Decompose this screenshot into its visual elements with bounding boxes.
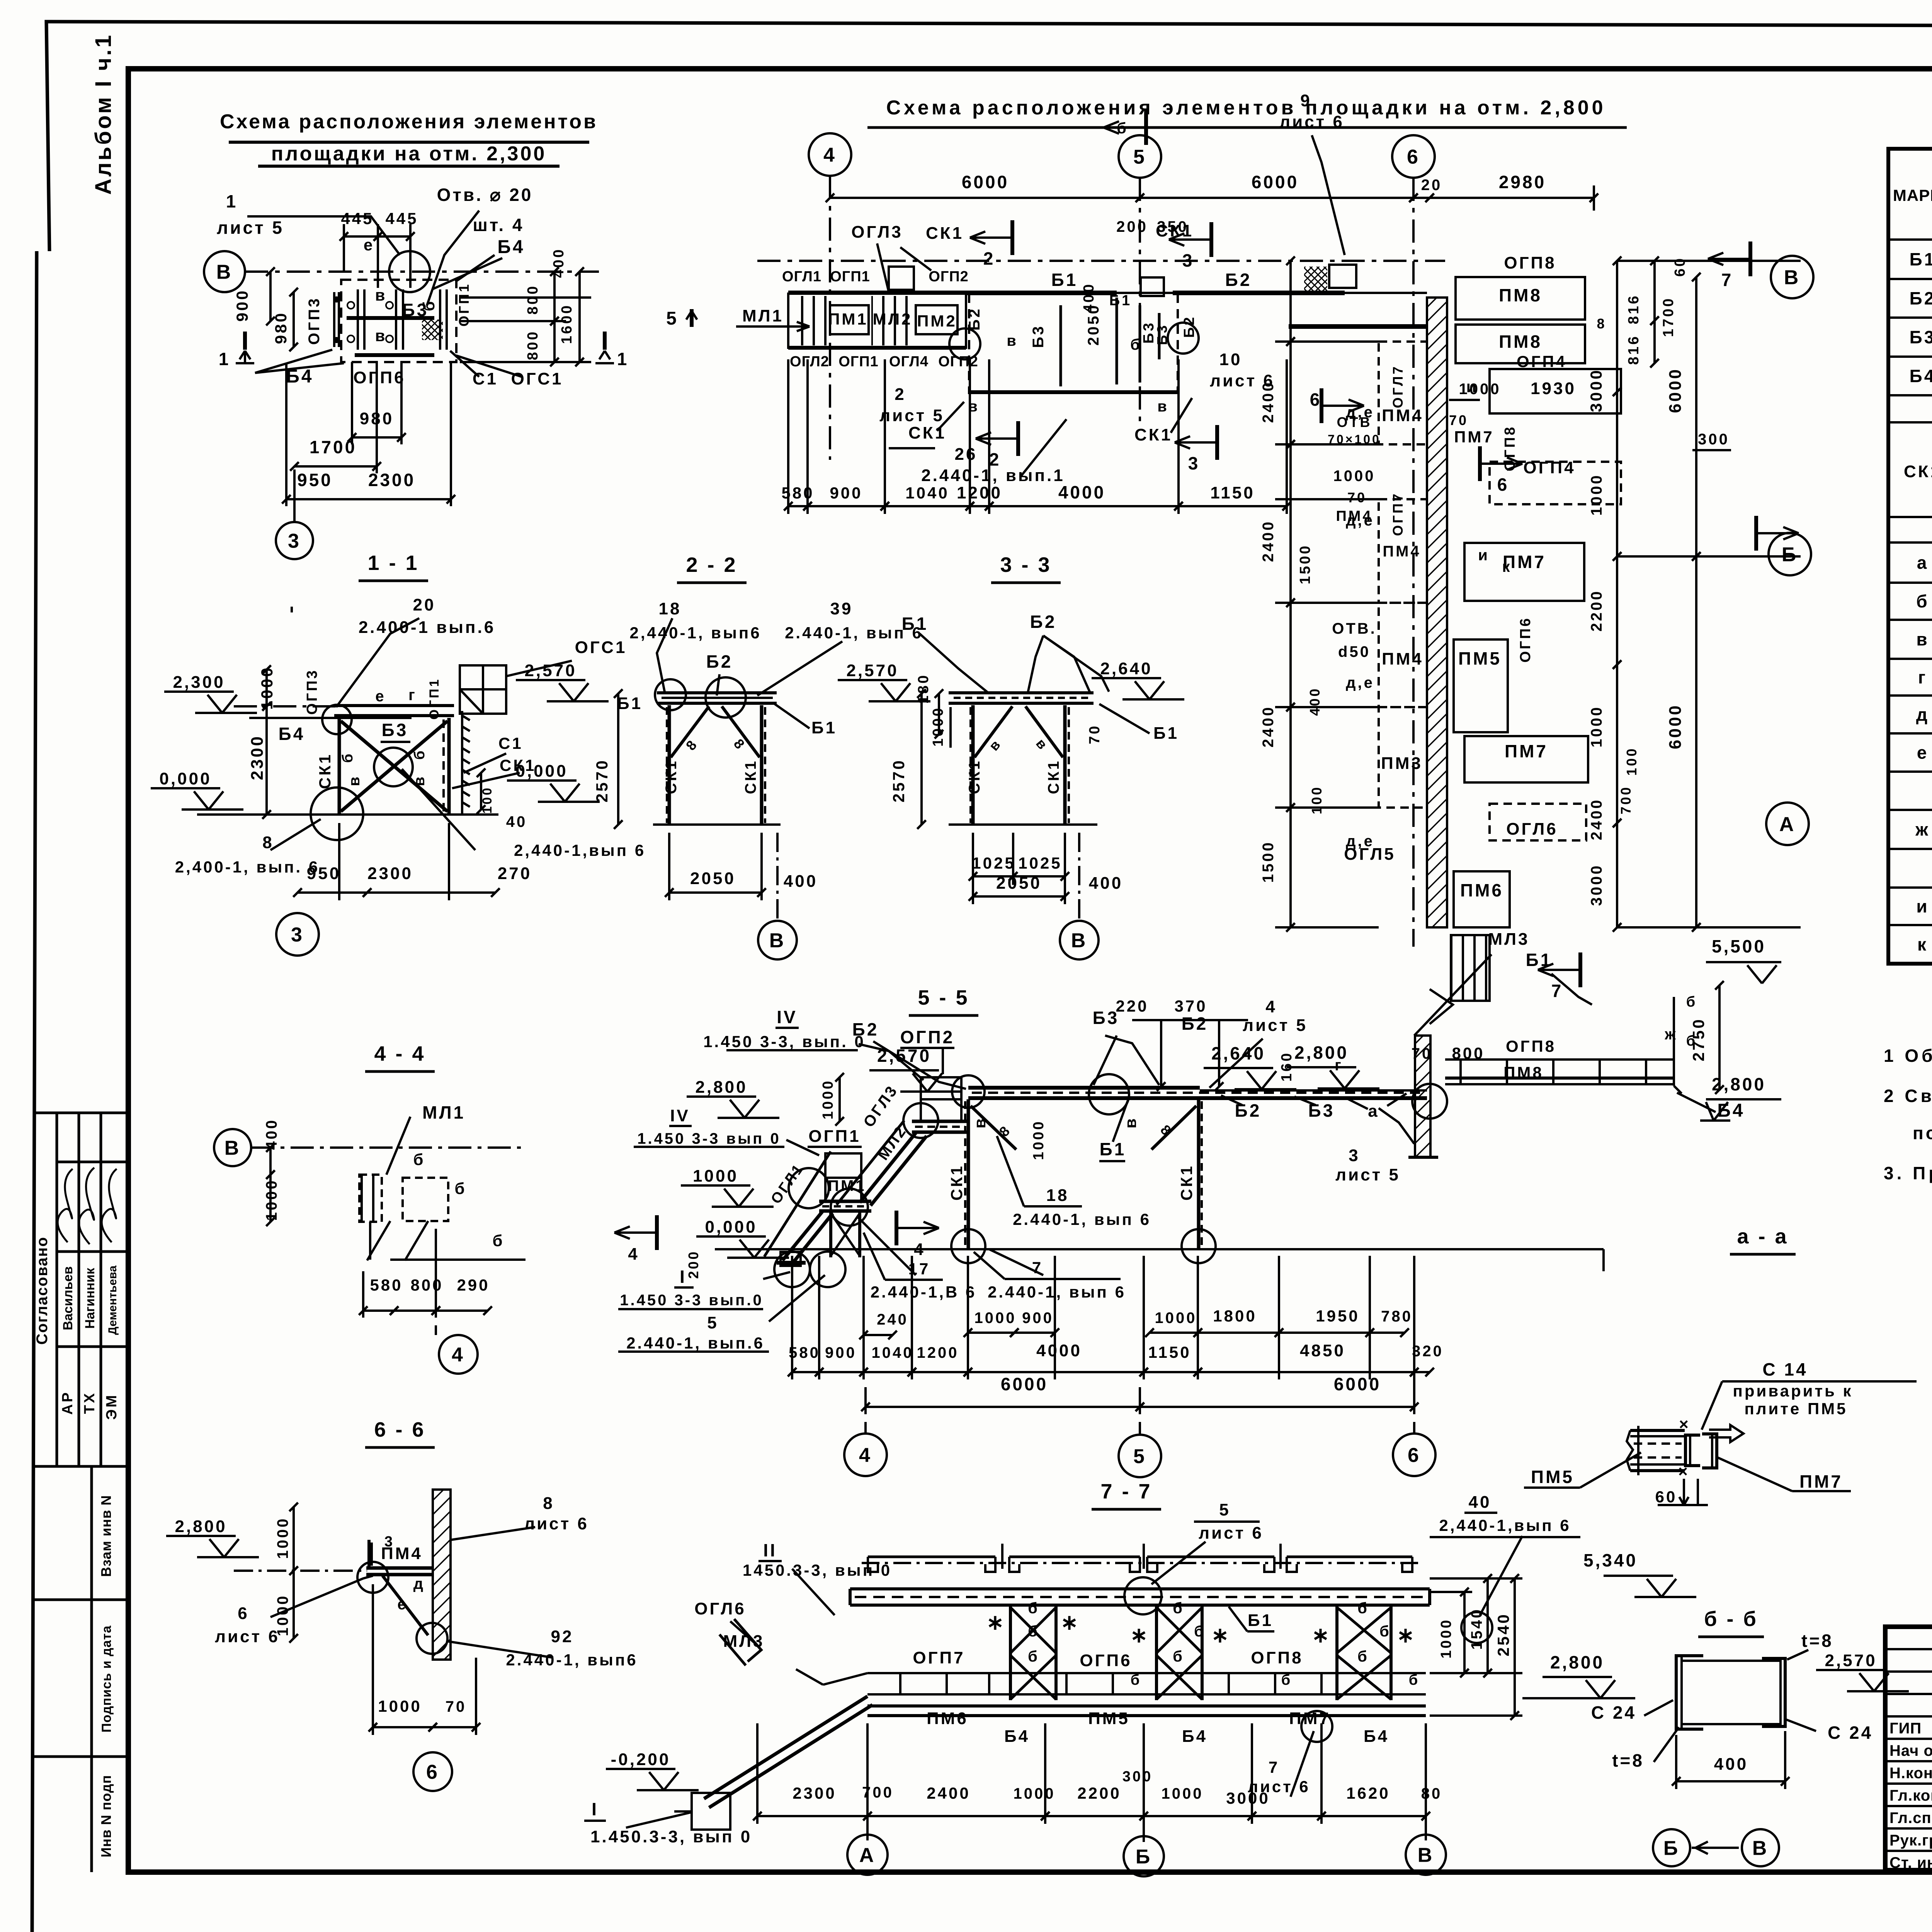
svg-text:Б: Б [1136, 1846, 1152, 1868]
svg-text:Б4: Б4 [1910, 366, 1932, 386]
svg-text:ПМ2: ПМ2 [917, 312, 957, 330]
svg-text:Б3: Б3 [1154, 323, 1170, 345]
svg-text:б: б [1028, 1648, 1039, 1665]
svg-text:а - а: а - а [1737, 1225, 1788, 1248]
svg-text:6: 6 [1497, 474, 1509, 495]
svg-text:400: 400 [551, 248, 567, 278]
svg-text:7: 7 [1032, 1259, 1043, 1277]
svg-text:б: б [1409, 1672, 1420, 1688]
svg-text:70: 70 [446, 1698, 467, 1715]
svg-text:1000: 1000 [274, 1517, 291, 1559]
svg-text:ОГЛ2: ОГЛ2 [790, 354, 829, 370]
svg-text:ПМ4: ПМ4 [1382, 406, 1423, 425]
svg-text:6000: 6000 [1334, 1374, 1381, 1394]
svg-text:ОГП8: ОГП8 [1251, 1648, 1303, 1667]
svg-text:7 - 7: 7 - 7 [1100, 1480, 1152, 1503]
svg-text:ПМ4: ПМ4 [1382, 650, 1423, 668]
svg-text:60: 60 [1672, 257, 1688, 277]
svg-text:ОГП3: ОГП3 [304, 668, 320, 715]
svg-text:ОГЛ4: ОГЛ4 [889, 354, 929, 370]
svg-text:2 - 2: 2 - 2 [686, 553, 737, 577]
svg-text:1 - 1: 1 - 1 [367, 551, 419, 575]
svg-text:∗: ∗ [1211, 1624, 1231, 1647]
svg-text:6000: 6000 [1252, 172, 1299, 192]
svg-text:-0,200: -0,200 [611, 1750, 671, 1769]
svg-text:Б2: Б2 [1030, 612, 1057, 632]
svg-text:б: б [1173, 1600, 1184, 1617]
svg-text:Б4: Б4 [1182, 1727, 1207, 1746]
svg-text:2400: 2400 [927, 1784, 970, 1802]
svg-text:2300: 2300 [793, 1784, 836, 1802]
svg-text:800: 800 [410, 1276, 443, 1294]
svg-text:В: В [216, 261, 233, 284]
svg-text:1000: 1000 [378, 1697, 422, 1715]
svg-text:2400: 2400 [1260, 520, 1277, 562]
svg-text:6: 6 [1408, 1444, 1421, 1467]
svg-text:ОГП8: ОГП8 [1504, 253, 1556, 272]
svg-text:б: б [1131, 1672, 1141, 1688]
svg-text:816: 816 [1626, 294, 1642, 324]
svg-text:2,570: 2,570 [524, 661, 577, 680]
svg-text:д: д [1916, 704, 1929, 724]
svg-text:МЛ1: МЛ1 [742, 306, 784, 325]
svg-text:ОГП4: ОГП4 [1523, 458, 1575, 477]
svg-text:300: 300 [1122, 1769, 1153, 1785]
svg-text:1620: 1620 [1346, 1784, 1390, 1802]
svg-text:270: 270 [498, 864, 532, 883]
svg-text:1000: 1000 [1162, 1785, 1204, 1802]
svg-text:б: б [1028, 1600, 1039, 1617]
svg-text:ОГП6: ОГП6 [1517, 616, 1534, 663]
svg-text:2570: 2570 [593, 759, 611, 802]
svg-text:20: 20 [413, 595, 436, 614]
svg-text:580: 580 [370, 1276, 403, 1294]
svg-text:ОГП7: ОГП7 [1390, 492, 1406, 536]
svg-text:е: е [364, 236, 374, 254]
svg-text:лист 6: лист 6 [1279, 112, 1344, 131]
svg-text:4: 4 [914, 1240, 925, 1259]
svg-text:∗: ∗ [1312, 1624, 1331, 1647]
svg-text:В: В [224, 1137, 241, 1160]
svg-text:ОГП2: ОГП2 [929, 269, 969, 285]
svg-text:Дементьева: Дементьева [106, 1265, 119, 1335]
svg-text:2: 2 [895, 385, 906, 404]
svg-text:Б1: Б1 [1051, 270, 1078, 290]
svg-text:ПМ8: ПМ8 [1503, 1063, 1544, 1082]
svg-text:ПМ5: ПМ5 [1531, 1467, 1574, 1487]
svg-text:4: 4 [452, 1344, 465, 1366]
svg-text:1000: 1000 [1588, 474, 1605, 516]
svg-text:445: 445 [385, 209, 418, 228]
svg-text:Б2: Б2 [1181, 315, 1197, 338]
svg-text:2 Сварку производить электрод: 2 Сварку производить электродами типа Э4… [1884, 1086, 1932, 1106]
svg-text:1.450.3-3, вып 0: 1.450.3-3, вып 0 [590, 1827, 752, 1846]
svg-text:ОГС1: ОГС1 [511, 369, 563, 388]
svg-text:ОГП1: ОГП1 [427, 677, 442, 719]
svg-text:1950: 1950 [1316, 1307, 1359, 1325]
svg-text:900: 900 [1022, 1310, 1054, 1327]
svg-text:0,000: 0,000 [515, 762, 568, 781]
svg-text:580: 580 [789, 1344, 820, 1361]
svg-text:950: 950 [307, 864, 341, 883]
svg-text:ОТВ.: ОТВ. [1332, 620, 1377, 637]
svg-text:лист 6: лист 6 [215, 1627, 280, 1646]
svg-text:40: 40 [506, 813, 527, 830]
svg-text:3000: 3000 [1587, 368, 1605, 412]
svg-text:ОГЛ1: ОГЛ1 [782, 269, 821, 285]
svg-text:1000: 1000 [263, 1179, 280, 1221]
svg-text:Б1: Б1 [1526, 950, 1553, 970]
svg-text:2,570: 2,570 [1825, 1651, 1877, 1670]
svg-text:Согласовано: Согласовано [34, 1236, 51, 1345]
svg-text:2,640: 2,640 [1100, 659, 1152, 678]
svg-text:Схема расположения элементов п: Схема расположения элементов площадки на… [886, 97, 1606, 119]
svg-text:II: II [763, 1540, 777, 1560]
svg-text:ПМ5: ПМ5 [1088, 1709, 1130, 1728]
svg-text:2: 2 [989, 449, 1001, 469]
svg-text:1700: 1700 [310, 437, 357, 457]
svg-text:Б1: Б1 [902, 614, 929, 634]
svg-text:6: 6 [1407, 146, 1420, 168]
svg-text:370: 370 [1174, 997, 1207, 1015]
svg-text:5: 5 [1219, 1500, 1230, 1519]
svg-text:1000: 1000 [1333, 468, 1376, 485]
svg-text:б: б [340, 752, 356, 763]
svg-text:6000: 6000 [1666, 367, 1685, 413]
svg-text:СК1: СК1 [742, 759, 759, 794]
svg-text:б - б: б - б [1704, 1607, 1758, 1631]
svg-text:240: 240 [877, 1311, 908, 1328]
svg-text:1800: 1800 [1213, 1307, 1257, 1325]
svg-text:С 24: С 24 [1828, 1723, 1873, 1743]
svg-text:Б1: Б1 [1910, 249, 1932, 269]
svg-text:2,640: 2,640 [1211, 1043, 1265, 1063]
svg-text:26: 26 [955, 445, 978, 464]
svg-text:1200: 1200 [957, 483, 1002, 502]
svg-text:1000: 1000 [1014, 1785, 1056, 1802]
svg-text:е: е [397, 1596, 408, 1613]
svg-text:а: а [1368, 1102, 1379, 1121]
svg-text:6000: 6000 [962, 172, 1009, 192]
svg-text:18: 18 [1046, 1186, 1069, 1205]
svg-text:200: 200 [685, 1250, 701, 1279]
svg-text:∗: ∗ [1397, 1624, 1416, 1647]
svg-text:Б4: Б4 [279, 724, 305, 744]
svg-text:МЛ3: МЛ3 [1488, 930, 1530, 949]
svg-text:б: б [412, 749, 428, 760]
svg-text:ПМ7: ПМ7 [1505, 741, 1548, 761]
svg-text:8: 8 [262, 833, 274, 852]
svg-text:ж: ж [1664, 1026, 1677, 1043]
svg-text:39: 39 [830, 599, 853, 618]
svg-text:в: в [1157, 398, 1169, 415]
svg-text:4000: 4000 [1058, 482, 1105, 502]
svg-text:40: 40 [1469, 1493, 1492, 1512]
svg-text:5 - 5: 5 - 5 [918, 986, 969, 1009]
svg-text:Б2: Б2 [1182, 1014, 1208, 1034]
svg-text:приварить к: приварить к [1733, 1382, 1853, 1400]
svg-text:2300: 2300 [368, 470, 415, 490]
svg-text:ОГП1: ОГП1 [456, 282, 472, 327]
svg-text:I: I [680, 1267, 687, 1287]
svg-text:и: и [1478, 547, 1490, 564]
svg-text:б: б [1379, 1623, 1391, 1640]
svg-text:2200: 2200 [1077, 1784, 1121, 1802]
svg-text:1000: 1000 [1438, 1618, 1454, 1659]
svg-text:АР: АР [60, 1391, 76, 1415]
svg-text:2,800: 2,800 [695, 1078, 747, 1097]
svg-text:С 14: С 14 [1762, 1359, 1808, 1379]
svg-text:СК1: СК1 [1177, 1164, 1196, 1201]
svg-text:2050: 2050 [996, 874, 1042, 893]
svg-text:ОГП2: ОГП2 [938, 354, 978, 370]
svg-text:4000: 4000 [1036, 1341, 1082, 1360]
svg-text:Б3: Б3 [1910, 327, 1932, 347]
svg-text:3: 3 [291, 924, 304, 946]
svg-text:400: 400 [263, 1118, 280, 1150]
svg-text:2400: 2400 [1260, 381, 1277, 423]
svg-text:Альбом I ч.1: Альбом I ч.1 [91, 33, 116, 195]
svg-text:1540: 1540 [1468, 1608, 1485, 1650]
svg-text:5: 5 [666, 308, 679, 329]
svg-text:2050: 2050 [1085, 304, 1102, 346]
svg-text:4: 4 [859, 1444, 872, 1467]
svg-text:0,000: 0,000 [159, 769, 211, 788]
svg-text:3: 3 [384, 1534, 395, 1550]
svg-text:3000: 3000 [1588, 864, 1605, 906]
svg-text:3: 3 [288, 530, 301, 553]
svg-text:∗: ∗ [986, 1611, 1006, 1634]
svg-text:2: 2 [983, 248, 995, 269]
svg-text:б: б [1117, 120, 1128, 137]
svg-text:МЛ1: МЛ1 [422, 1102, 465, 1122]
svg-text:СК1: СК1 [1134, 425, 1172, 444]
svg-text:1000: 1000 [1459, 381, 1501, 398]
svg-text:18: 18 [659, 599, 682, 618]
svg-text:300: 300 [1698, 431, 1730, 448]
svg-text:20: 20 [1421, 177, 1442, 194]
svg-text:2,440-1,вып 6: 2,440-1,вып 6 [1439, 1516, 1571, 1534]
svg-text:d50: d50 [1338, 643, 1371, 660]
svg-text:2200: 2200 [1588, 590, 1605, 632]
svg-text:1150: 1150 [1210, 483, 1255, 502]
svg-text:∗: ∗ [1130, 1624, 1150, 1647]
svg-text:в: в [375, 286, 387, 304]
svg-text:1: 1 [219, 349, 231, 369]
svg-text:МАРКА: МАРКА [1893, 186, 1932, 204]
svg-text:900: 900 [830, 484, 862, 502]
svg-text:Н.контр.: Н.контр. [1889, 1765, 1932, 1782]
svg-text:2400: 2400 [1260, 706, 1277, 748]
svg-text:и: и [1916, 896, 1929, 917]
svg-text:Б1: Б1 [1153, 724, 1179, 743]
svg-text:е: е [375, 688, 386, 705]
svg-text:Рук.гр: Рук.гр [1889, 1832, 1932, 1849]
svg-text:1000: 1000 [1155, 1310, 1197, 1327]
svg-text:Б1: Б1 [811, 718, 837, 737]
svg-text:В: В [1071, 930, 1088, 952]
svg-text:ОГС1: ОГС1 [575, 638, 627, 657]
svg-text:1500: 1500 [1297, 544, 1313, 585]
svg-text:10: 10 [1219, 350, 1242, 369]
svg-text:320: 320 [1412, 1343, 1444, 1360]
svg-text:в: в [971, 1117, 989, 1129]
svg-text:2.440-1, вып 6: 2.440-1, вып 6 [988, 1283, 1126, 1301]
svg-text:400: 400 [1089, 874, 1123, 893]
svg-text:2,800: 2,800 [1712, 1074, 1766, 1094]
svg-text:ПМ7: ПМ7 [1503, 552, 1546, 572]
svg-text:×: × [1679, 1415, 1690, 1433]
svg-text:3 - 3: 3 - 3 [1000, 553, 1051, 577]
svg-text:Схема расположения элементов: Схема расположения элементов [220, 111, 598, 133]
svg-text:г: г [1918, 667, 1927, 687]
svg-text:СК1: СК1 [926, 224, 964, 243]
svg-text:950: 950 [297, 470, 333, 490]
svg-text:3. Продолжение ведомости элеме: 3. Продолжение ведомости элементов см. л… [1884, 1163, 1932, 1183]
svg-text:92: 92 [551, 1627, 574, 1646]
svg-text:780: 780 [1381, 1308, 1413, 1325]
svg-text:220: 220 [1116, 997, 1148, 1015]
svg-text:1.450 3-3 вып 0: 1.450 3-3 вып 0 [637, 1130, 781, 1147]
svg-text:ОГП8: ОГП8 [1506, 1037, 1556, 1055]
svg-text:400: 400 [784, 872, 818, 891]
svg-text:IV: IV [670, 1106, 690, 1125]
svg-text:Б2: Б2 [706, 651, 733, 672]
svg-text:Б2: Б2 [966, 307, 983, 331]
svg-text:1.450 3-3 вып.0: 1.450 3-3 вып.0 [620, 1292, 763, 1309]
svg-text:ОГП4: ОГП4 [1517, 352, 1567, 371]
svg-text:д: д [413, 1575, 425, 1592]
svg-text:Б3: Б3 [402, 300, 429, 320]
svg-text:8: 8 [1597, 316, 1606, 332]
svg-text:ОГЛ3: ОГЛ3 [851, 223, 903, 241]
svg-text:1500: 1500 [1260, 841, 1277, 883]
svg-text:2980: 2980 [1499, 172, 1546, 192]
svg-text:в: в [375, 327, 387, 345]
svg-text:580: 580 [781, 484, 814, 502]
svg-text:700: 700 [862, 1784, 894, 1801]
svg-text:2.440-1, вып.6: 2.440-1, вып.6 [626, 1334, 765, 1352]
svg-text:в: в [1007, 332, 1018, 349]
svg-text:70×100: 70×100 [1328, 432, 1381, 446]
svg-text:2,570: 2,570 [846, 661, 898, 680]
svg-text:ОГП1: ОГП1 [838, 354, 879, 370]
svg-text:С 24: С 24 [1591, 1702, 1636, 1723]
svg-text:по ГОСТ 9467-75, катет шва Кф=: по ГОСТ 9467-75, катет шва Кф= 6 мм. [1913, 1123, 1932, 1143]
svg-text:СК1: СК1 [316, 753, 334, 789]
svg-text:400: 400 [1714, 1755, 1748, 1774]
svg-text:2.440-1, вып 6: 2.440-1, вып 6 [1013, 1210, 1151, 1228]
svg-text:290: 290 [457, 1276, 490, 1294]
svg-text:2,400-1, вып. 6: 2,400-1, вып. 6 [175, 858, 320, 876]
svg-text:ж: ж [1915, 820, 1930, 840]
svg-text:4 - 4: 4 - 4 [374, 1042, 425, 1065]
svg-text:ОГП6: ОГП6 [353, 368, 405, 387]
svg-text:С1: С1 [498, 734, 523, 752]
svg-text:1000: 1000 [693, 1167, 738, 1185]
svg-text:ОГЛ5: ОГЛ5 [1344, 845, 1395, 864]
svg-text:б: б [1357, 1600, 1369, 1617]
svg-text:1000: 1000 [1588, 706, 1605, 748]
svg-text:плите ПМ5: плите ПМ5 [1745, 1400, 1848, 1418]
svg-text:t=8: t=8 [1612, 1750, 1644, 1770]
svg-text:1000: 1000 [820, 1079, 836, 1120]
svg-text:2,440-1,вып 6: 2,440-1,вып 6 [514, 841, 646, 859]
svg-text:1450.3-3, вып 0: 1450.3-3, вып 0 [743, 1561, 892, 1579]
svg-text:ЭМ: ЭМ [104, 1393, 120, 1420]
svg-text:1000: 1000 [1031, 1120, 1047, 1160]
svg-text:б: б [493, 1231, 505, 1250]
svg-text:к: к [1917, 934, 1928, 954]
svg-text:Б4: Б4 [286, 366, 313, 387]
svg-text:5: 5 [707, 1313, 718, 1332]
svg-text:ОГП7: ОГП7 [913, 1648, 965, 1667]
svg-text:ОГЛ6: ОГЛ6 [1506, 820, 1558, 838]
svg-text:А: А [1779, 813, 1796, 836]
svg-text:3: 3 [1182, 250, 1194, 270]
svg-text:В: В [769, 930, 786, 952]
svg-text:IV: IV [777, 1007, 797, 1027]
svg-text:С1: С1 [473, 369, 498, 388]
svg-text:4: 4 [628, 1245, 639, 1264]
svg-text:6: 6 [238, 1604, 249, 1623]
svg-text:в: в [1916, 629, 1929, 650]
svg-text:1040: 1040 [872, 1344, 914, 1361]
svg-text:ПМ3: ПМ3 [1381, 754, 1423, 773]
svg-text:1700: 1700 [1660, 297, 1677, 337]
svg-text:Подпись и дата: Подпись и дата [99, 1625, 114, 1733]
svg-text:СК1: СК1 [663, 759, 680, 794]
svg-text:2.440-1, вып6: 2.440-1, вып6 [506, 1651, 638, 1669]
svg-text:а: а [1917, 553, 1929, 573]
svg-text:ПМ4: ПМ4 [1336, 508, 1372, 524]
svg-text:ПМ7: ПМ7 [1799, 1471, 1843, 1492]
svg-text:980: 980 [360, 409, 394, 428]
svg-text:Б4: Б4 [497, 237, 525, 257]
svg-text:ПМ6: ПМ6 [1460, 880, 1503, 900]
svg-text:2570: 2570 [889, 759, 908, 802]
svg-text:в: в [1121, 1117, 1139, 1129]
svg-text:2,800: 2,800 [175, 1517, 227, 1536]
svg-text:400: 400 [1307, 687, 1323, 716]
svg-text:ОГЛ7: ОГЛ7 [1390, 365, 1406, 408]
svg-text:Нагинник: Нагинник [83, 1267, 97, 1328]
svg-text:1000: 1000 [930, 706, 946, 747]
svg-text:ОГП1: ОГП1 [830, 269, 870, 285]
svg-text:4: 4 [823, 144, 837, 167]
svg-text:Нач отд: Нач отд [1889, 1742, 1932, 1759]
svg-text:800: 800 [525, 330, 541, 360]
svg-text:шт. 4: шт. 4 [473, 215, 524, 235]
svg-text:6: 6 [426, 1761, 439, 1784]
svg-text:1000: 1000 [258, 666, 276, 709]
svg-text:1000: 1000 [975, 1310, 1017, 1327]
svg-text:б: б [1357, 1648, 1369, 1665]
svg-text:816: 816 [1626, 335, 1642, 365]
svg-text:5: 5 [1133, 146, 1146, 168]
svg-text:6000: 6000 [1666, 704, 1685, 749]
svg-text:180: 180 [915, 673, 932, 704]
svg-text:лист 5: лист 5 [1243, 1016, 1308, 1035]
svg-text:900: 900 [825, 1344, 857, 1361]
svg-text:г: г [408, 687, 417, 704]
svg-text:В: В [1784, 267, 1801, 289]
svg-text:лист 6: лист 6 [524, 1514, 589, 1533]
svg-text:б: б [1686, 1033, 1697, 1049]
svg-text:6 - 6: 6 - 6 [374, 1418, 425, 1441]
svg-text:5,340: 5,340 [1583, 1550, 1638, 1570]
svg-text:б: б [1194, 1623, 1206, 1640]
